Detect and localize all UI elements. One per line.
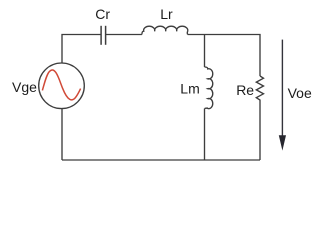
inductor Lm: [205, 67, 213, 109]
svg-text:Lr: Lr: [160, 6, 173, 22]
svg-text:Re: Re: [236, 82, 254, 98]
wire: top segment Cr to Lr: [106, 34, 142, 36]
wire: Lm branch from top rail down to Lm: [204, 35, 206, 68]
wire: right side below Re to bottom-right corner: [259, 102, 261, 160]
svg-text:Cr: Cr: [95, 6, 110, 22]
capacitor Cr: [101, 26, 106, 45]
wire: Lm bottom lead to bottom rail: [204, 109, 206, 161]
resistor Re: [256, 76, 263, 102]
wire: bottom rail: [62, 159, 260, 161]
wire: top-left segment from left corner to Cr: [62, 35, 101, 63]
voltage source Vge: [39, 63, 85, 109]
wire: left side below source Vge: [61, 109, 63, 160]
svg-text:Vge: Vge: [12, 79, 37, 95]
inductor Lr: [142, 26, 188, 34]
svg-text:Voe: Voe: [288, 85, 312, 101]
arrow Voe (output voltage indicator): [279, 40, 286, 151]
wire: top segment Lr to top-right corner, down right side to Re: [188, 35, 260, 77]
svg-text:Lm: Lm: [180, 81, 199, 97]
